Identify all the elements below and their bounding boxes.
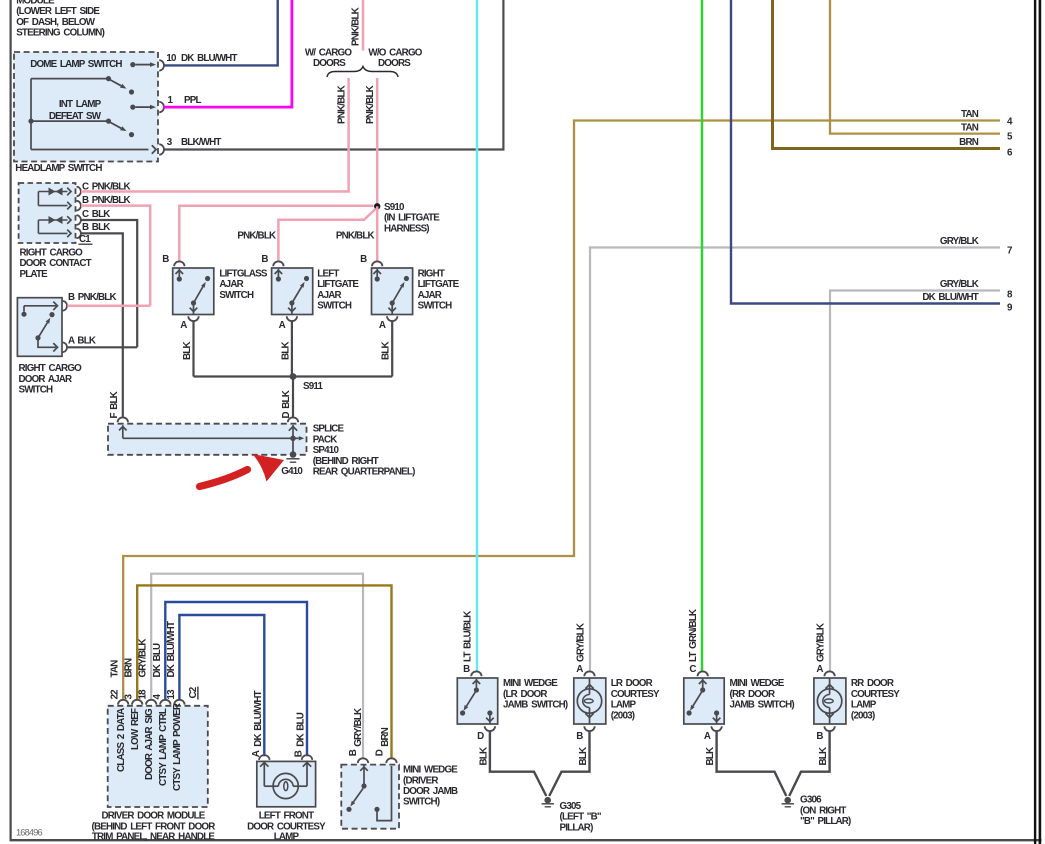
svg-text:GRY/BLK: GRY/BLK	[940, 236, 979, 247]
svg-text:D: D	[477, 731, 484, 742]
svg-text:SPLICE: SPLICE	[313, 424, 345, 435]
svg-text:LR DOOR: LR DOOR	[611, 678, 653, 689]
svg-text:(BEHIND RIGHT: (BEHIND RIGHT	[313, 456, 379, 467]
wire BLK LR jamb pin D to G305	[490, 731, 546, 797]
svg-text:MINI WEDGE: MINI WEDGE	[730, 678, 785, 689]
svg-text:G305: G305	[560, 801, 582, 812]
svg-text:GRY/BLK: GRY/BLK	[940, 279, 979, 290]
wire DK BLU/WHT DDM pin13 to courtesy lamp pin A	[179, 615, 264, 756]
svg-text:W/O CARGO: W/O CARGO	[368, 48, 422, 59]
svg-text:13: 13	[166, 689, 177, 700]
svg-text:DK BLU/WHT: DK BLU/WHT	[181, 53, 237, 64]
svg-text:A: A	[379, 320, 386, 331]
svg-text:4: 4	[1007, 117, 1013, 128]
svg-text:PLATE: PLATE	[20, 269, 49, 280]
wire BRN circuit 6 from top	[773, 0, 1001, 149]
splice S911 dot	[290, 373, 297, 380]
wire BLK S911 down to splice pack pin D	[292, 377, 294, 418]
svg-text:D BLK: D BLK	[281, 390, 292, 418]
svg-text:A BLK: A BLK	[68, 335, 96, 346]
svg-text:BRN: BRN	[380, 727, 391, 747]
splice pack SP410 dashed box	[108, 424, 307, 455]
svg-text:CLASS 2 DATA: CLASS 2 DATA	[116, 708, 127, 772]
pin 3 line and arrow	[31, 149, 149, 151]
svg-text:BLK: BLK	[280, 342, 291, 360]
wire PNK/BLK from top to brace	[362, 0, 365, 51]
lamp internal wiring	[263, 761, 265, 786]
svg-text:BLK: BLK	[182, 342, 193, 360]
svg-text:DOOR AJAR SIG: DOOR AJAR SIG	[144, 708, 155, 780]
splice pack internal bus	[122, 425, 124, 438]
diagram frame right double border	[1034, 0, 1036, 844]
right liftgate ajar switch box	[372, 268, 413, 315]
svg-text:RR DOOR: RR DOOR	[851, 678, 894, 689]
svg-text:TAN: TAN	[961, 109, 979, 120]
svg-text:DK BLU: DK BLU	[152, 643, 163, 678]
mini wedge driver door jamb switch dashed box	[341, 765, 399, 829]
svg-text:7: 7	[1007, 246, 1013, 257]
svg-text:G410: G410	[281, 466, 303, 477]
svg-text:DOOR JAMB: DOOR JAMB	[403, 786, 458, 797]
svg-text:PNK/BLK: PNK/BLK	[365, 85, 376, 124]
svg-text:REAR QUARTERPANEL): REAR QUARTERPANEL)	[313, 467, 415, 478]
svg-text:CTSY LAMP CTRL: CTSY LAMP CTRL	[158, 708, 169, 786]
svg-text:SWITCH: SWITCH	[317, 301, 352, 312]
svg-text:B: B	[162, 254, 169, 265]
splice pack pin D internal riser	[292, 425, 294, 455]
svg-text:RIGHT: RIGHT	[418, 268, 445, 279]
svg-text:S911: S911	[303, 381, 323, 392]
liftglass ajar switch box	[173, 268, 214, 315]
svg-text:A: A	[180, 320, 187, 331]
wire TAN circuit 4 riser	[123, 121, 1000, 701]
ajar switch internal: pin B line	[24, 305, 56, 307]
right cargo door ajar switch box	[17, 298, 62, 357]
svg-text:LIFTGATE: LIFTGATE	[317, 279, 359, 290]
contact plate upper contact pair	[38, 191, 67, 193]
svg-text:JAMB SWITCH): JAMB SWITCH)	[730, 700, 795, 711]
svg-text:(LEFT "B": (LEFT "B"	[560, 812, 601, 823]
svg-text:DK BLU: DK BLU	[295, 712, 306, 747]
wire PNK/BLK ajar switch pin B to riser	[67, 305, 150, 308]
svg-text:BLK: BLK	[578, 747, 589, 765]
wire DK BLU/WHT circuit 9 from top	[731, 0, 1000, 304]
svg-text:B: B	[360, 254, 367, 265]
wire GRY/BLK circuit 8	[830, 291, 1000, 672]
svg-text:SWITCH: SWITCH	[19, 385, 54, 396]
svg-text:A: A	[704, 731, 711, 742]
wire PNK/BLK contact plate pin C to riser	[81, 190, 350, 193]
svg-text:A: A	[251, 750, 262, 757]
diagram frame bottom border	[10, 839, 1042, 841]
ajar switch blade	[49, 312, 54, 317]
ground G305 symbol	[544, 797, 551, 804]
svg-text:10: 10	[166, 53, 177, 64]
wire PNK/BLK S910 down to right liftgate switch	[376, 206, 379, 261]
svg-text:COURTESY: COURTESY	[851, 689, 900, 700]
svg-text:AJAR: AJAR	[317, 290, 341, 301]
svg-text:GRY/BLK: GRY/BLK	[353, 708, 364, 747]
svg-text:A: A	[279, 320, 286, 331]
svg-text:LAMP: LAMP	[851, 700, 877, 711]
svg-text:DOOR CONTACT: DOOR CONTACT	[20, 258, 92, 269]
svg-text:BRN: BRN	[124, 658, 135, 678]
splice pack pin F arc	[118, 417, 128, 422]
lamp pin B arc	[302, 755, 312, 760]
driver jamb pin B arc	[358, 758, 368, 763]
lamp pin A arc	[259, 755, 269, 760]
DDM pin 3 arc	[132, 700, 142, 705]
svg-text:(DRIVER: (DRIVER	[403, 775, 438, 786]
svg-text:PNK/BLK: PNK/BLK	[336, 85, 347, 124]
svg-text:BLK/WHT: BLK/WHT	[181, 137, 221, 148]
wire LT BLU/BLK trunk	[476, 0, 479, 672]
svg-text:B PNK/BLK: B PNK/BLK	[68, 292, 116, 303]
svg-text:C1: C1	[79, 234, 91, 245]
svg-text:A: A	[816, 664, 823, 675]
svg-text:A: A	[576, 664, 583, 675]
wire BLK RR jamb pin A to G306	[717, 731, 787, 797]
svg-text:PPL: PPL	[184, 95, 201, 106]
wire PNK/BLK w/cargo branch down-left to contact plate	[347, 78, 350, 192]
DDM pin 18 arc	[146, 700, 156, 705]
lamp bulb circle	[273, 773, 298, 798]
svg-text:JAMB SWITCH): JAMB SWITCH)	[503, 700, 568, 711]
svg-text:AJAR: AJAR	[219, 279, 243, 290]
wire DK BLU DDM pin4 to courtesy lamp pin B	[165, 602, 307, 756]
wire TAN circuit 5 from top	[830, 0, 1000, 134]
contact plate lower contact pair	[38, 219, 67, 221]
svg-text:6: 6	[1007, 148, 1013, 159]
driver jamb switch internals	[361, 783, 366, 788]
svg-text:DOOR AJAR: DOOR AJAR	[19, 374, 73, 385]
svg-text:C BLK: C BLK	[82, 209, 110, 220]
svg-text:LAMP: LAMP	[274, 831, 300, 842]
svg-text:3: 3	[124, 694, 135, 700]
hand-drawn red arrow pointing to G410	[200, 470, 248, 487]
int lamp defeat sw internal bus	[30, 79, 32, 150]
LR door courtesy lamp	[574, 678, 606, 724]
svg-text:BRN: BRN	[959, 137, 979, 148]
svg-text:SWITCH: SWITCH	[219, 290, 254, 301]
svg-text:(IN LIFTGATE: (IN LIFTGATE	[384, 213, 440, 224]
svg-text:LAMP: LAMP	[611, 700, 637, 711]
mini wedge LR door jamb switch	[457, 678, 497, 724]
wire GRY/BLK circuit 7	[590, 248, 1000, 672]
wire BLK S911 horizontal bus	[194, 375, 393, 377]
wire GRY/BLK DDM pin18 to driver jamb switch	[151, 574, 363, 759]
wire PNK/BLK w/o cargo branch down to S910	[376, 78, 379, 206]
ajar switch pin A line	[38, 340, 56, 347]
wire BLK contact plate pin B to splice pack pin F	[81, 233, 123, 417]
svg-text:B: B	[576, 731, 583, 742]
pin 1 contact arrow	[130, 105, 135, 110]
svg-text:C: C	[689, 664, 696, 675]
svg-text:(2003): (2003)	[611, 710, 635, 721]
splice pack pin D arc	[288, 417, 298, 422]
svg-text:3: 3	[167, 137, 173, 148]
wire BRN DDM pin3 to driver jamb switch	[137, 585, 391, 758]
svg-text:F BLK: F BLK	[109, 391, 120, 418]
wire BLK contact plate pin C down	[81, 220, 137, 347]
svg-text:LIFTGLASS: LIFTGLASS	[219, 268, 267, 279]
svg-text:DOME LAMP SWITCH: DOME LAMP SWITCH	[30, 59, 122, 70]
svg-text:SP410: SP410	[313, 445, 340, 456]
svg-text:W/ CARGO: W/ CARGO	[305, 48, 353, 59]
int lamp defeat sw upper throw	[31, 78, 109, 80]
svg-text:LT BLU/BLK: LT BLU/BLK	[462, 611, 473, 662]
svg-text:LIFTGATE: LIFTGATE	[418, 279, 460, 290]
svg-text:STEERING COLUMN): STEERING COLUMN)	[16, 28, 104, 39]
svg-text:B BLK: B BLK	[82, 222, 110, 233]
svg-text:SWITCH: SWITCH	[418, 301, 453, 312]
dome lamp switch contact and pin 10 arrow	[130, 62, 135, 67]
svg-text:RIGHT CARGO: RIGHT CARGO	[19, 363, 83, 374]
svg-text:B: B	[294, 750, 305, 757]
svg-text:D: D	[375, 749, 386, 756]
RR door courtesy lamp	[814, 678, 846, 724]
wire BLK RR lamp pin B to G306	[789, 731, 829, 797]
wire BLK/WHT pin3 to top	[163, 0, 503, 150]
wire BLK ajar switch pin A to riser	[67, 346, 137, 348]
DDM pin 22 arc	[118, 700, 128, 705]
svg-text:(2003): (2003)	[851, 710, 875, 721]
svg-text:PNK/BLK: PNK/BLK	[237, 230, 276, 241]
svg-text:TAN: TAN	[961, 122, 979, 133]
svg-text:DK BLU/WHT: DK BLU/WHT	[922, 292, 978, 303]
wire DK BLU/WHT pin10 to top	[163, 0, 278, 65]
headlamp switch dashed box	[14, 52, 158, 162]
svg-text:BLK: BLK	[478, 747, 489, 765]
svg-text:9: 9	[1007, 303, 1013, 314]
svg-text:B: B	[348, 749, 359, 756]
svg-text:MINI WEDGE: MINI WEDGE	[503, 678, 558, 689]
svg-text:DOORS: DOORS	[313, 58, 346, 69]
svg-text:RIGHT CARGO: RIGHT CARGO	[20, 248, 84, 259]
ground G306 symbol	[784, 797, 791, 804]
svg-text:LOW REF: LOW REF	[130, 708, 141, 750]
svg-text:PNK/BLK: PNK/BLK	[336, 230, 375, 241]
svg-text:SWITCH): SWITCH)	[403, 797, 440, 808]
svg-text:18: 18	[138, 689, 149, 700]
svg-text:DK BLU/WHT: DK BLU/WHT	[253, 690, 264, 746]
svg-text:5: 5	[1007, 132, 1013, 143]
svg-text:PILLAR): PILLAR)	[560, 822, 594, 833]
svg-text:(LOWER LEFT SIDE: (LOWER LEFT SIDE	[16, 6, 100, 17]
driver jamb pin D arc	[386, 758, 396, 763]
svg-text:GRY/BLK: GRY/BLK	[815, 623, 826, 662]
svg-text:1: 1	[168, 95, 174, 106]
svg-text:G306: G306	[800, 795, 822, 806]
wire BLK left liftgate pin A down to S911	[291, 321, 293, 377]
svg-text:HEADLAMP SWITCH: HEADLAMP SWITCH	[15, 163, 102, 174]
DDM pin 4 arc	[160, 700, 170, 705]
wire PNK/BLK contact plate pin B to door ajar switch	[81, 206, 150, 306]
right cargo door contact plate dashed box	[19, 183, 76, 243]
ground G410 symbol	[290, 451, 297, 458]
left liftgate ajar switch box	[272, 268, 313, 315]
svg-text:INT LAMP: INT LAMP	[59, 99, 102, 110]
svg-text:MINI WEDGE: MINI WEDGE	[403, 765, 458, 776]
svg-text:LT GRN/BLK: LT GRN/BLK	[688, 609, 699, 662]
int lamp defeat sw lower throw	[31, 120, 109, 122]
wire PNK/BLK liftglass branch	[179, 206, 373, 262]
svg-text:(LR DOOR: (LR DOOR	[503, 689, 547, 700]
svg-text:PNK/BLK: PNK/BLK	[351, 7, 362, 46]
svg-text:TAN: TAN	[110, 660, 121, 678]
svg-text:CTSY LAMP POWER: CTSY LAMP POWER	[172, 703, 183, 791]
left front door courtesy lamp box	[257, 761, 316, 806]
DDM pin 13 arc	[174, 700, 184, 705]
svg-text:4: 4	[152, 694, 163, 700]
svg-text:B: B	[261, 254, 268, 265]
svg-text:GRY/BLK: GRY/BLK	[575, 623, 586, 662]
svg-text:22: 22	[110, 689, 121, 700]
svg-text:AJAR: AJAR	[418, 290, 442, 301]
svg-text:PACK: PACK	[313, 434, 338, 445]
svg-text:DOORS: DOORS	[378, 58, 411, 69]
svg-text:HARNESS): HARNESS)	[384, 223, 429, 234]
svg-text:OF DASH, BELOW: OF DASH, BELOW	[16, 17, 96, 28]
mini wedge RR door jamb switch	[684, 678, 724, 724]
svg-text:LEFT: LEFT	[317, 268, 339, 279]
svg-text:COURTESY: COURTESY	[611, 689, 660, 700]
svg-text:BLK: BLK	[705, 747, 716, 765]
svg-text:BLK: BLK	[381, 342, 392, 360]
svg-text:DEFEAT SW: DEFEAT SW	[49, 111, 102, 122]
svg-text:B: B	[816, 731, 823, 742]
wire PNK/BLK S910 diagonal to left liftgate branch	[278, 209, 375, 262]
svg-text:S910: S910	[384, 202, 405, 213]
svg-text:(ON RIGHT: (ON RIGHT	[800, 805, 846, 816]
wire PPL pin1 to top	[163, 0, 292, 107]
svg-text:BLK: BLK	[818, 747, 829, 765]
wire BLK LR lamp pin B to G305	[549, 731, 589, 797]
svg-text:LEFT FRONT: LEFT FRONT	[259, 811, 314, 822]
svg-text:"B" PILLAR): "B" PILLAR)	[800, 816, 851, 827]
svg-text:DK BLU/WHT: DK BLU/WHT	[166, 621, 177, 677]
splice S910 dot	[374, 203, 380, 209]
wire BLK liftglass pin A down	[192, 321, 194, 377]
svg-text:DRIVER DOOR MODULE: DRIVER DOOR MODULE	[101, 811, 205, 822]
svg-text:(RR DOOR: (RR DOOR	[730, 689, 775, 700]
svg-text:8: 8	[1007, 290, 1013, 301]
svg-text:TRIM PANEL, NEAR HANDLE: TRIM PANEL, NEAR HANDLE	[92, 831, 216, 842]
svg-text:GRY/BLK: GRY/BLK	[138, 639, 149, 678]
wire BLK right liftgate pin A down	[391, 321, 393, 377]
brace for cargo door options	[327, 67, 398, 78]
svg-text:168496: 168496	[16, 828, 43, 838]
driver door module dashed box	[108, 706, 208, 807]
wire LT GRN/BLK trunk	[701, 0, 704, 672]
diagram frame left border	[10, 0, 12, 841]
svg-text:B: B	[463, 664, 470, 675]
